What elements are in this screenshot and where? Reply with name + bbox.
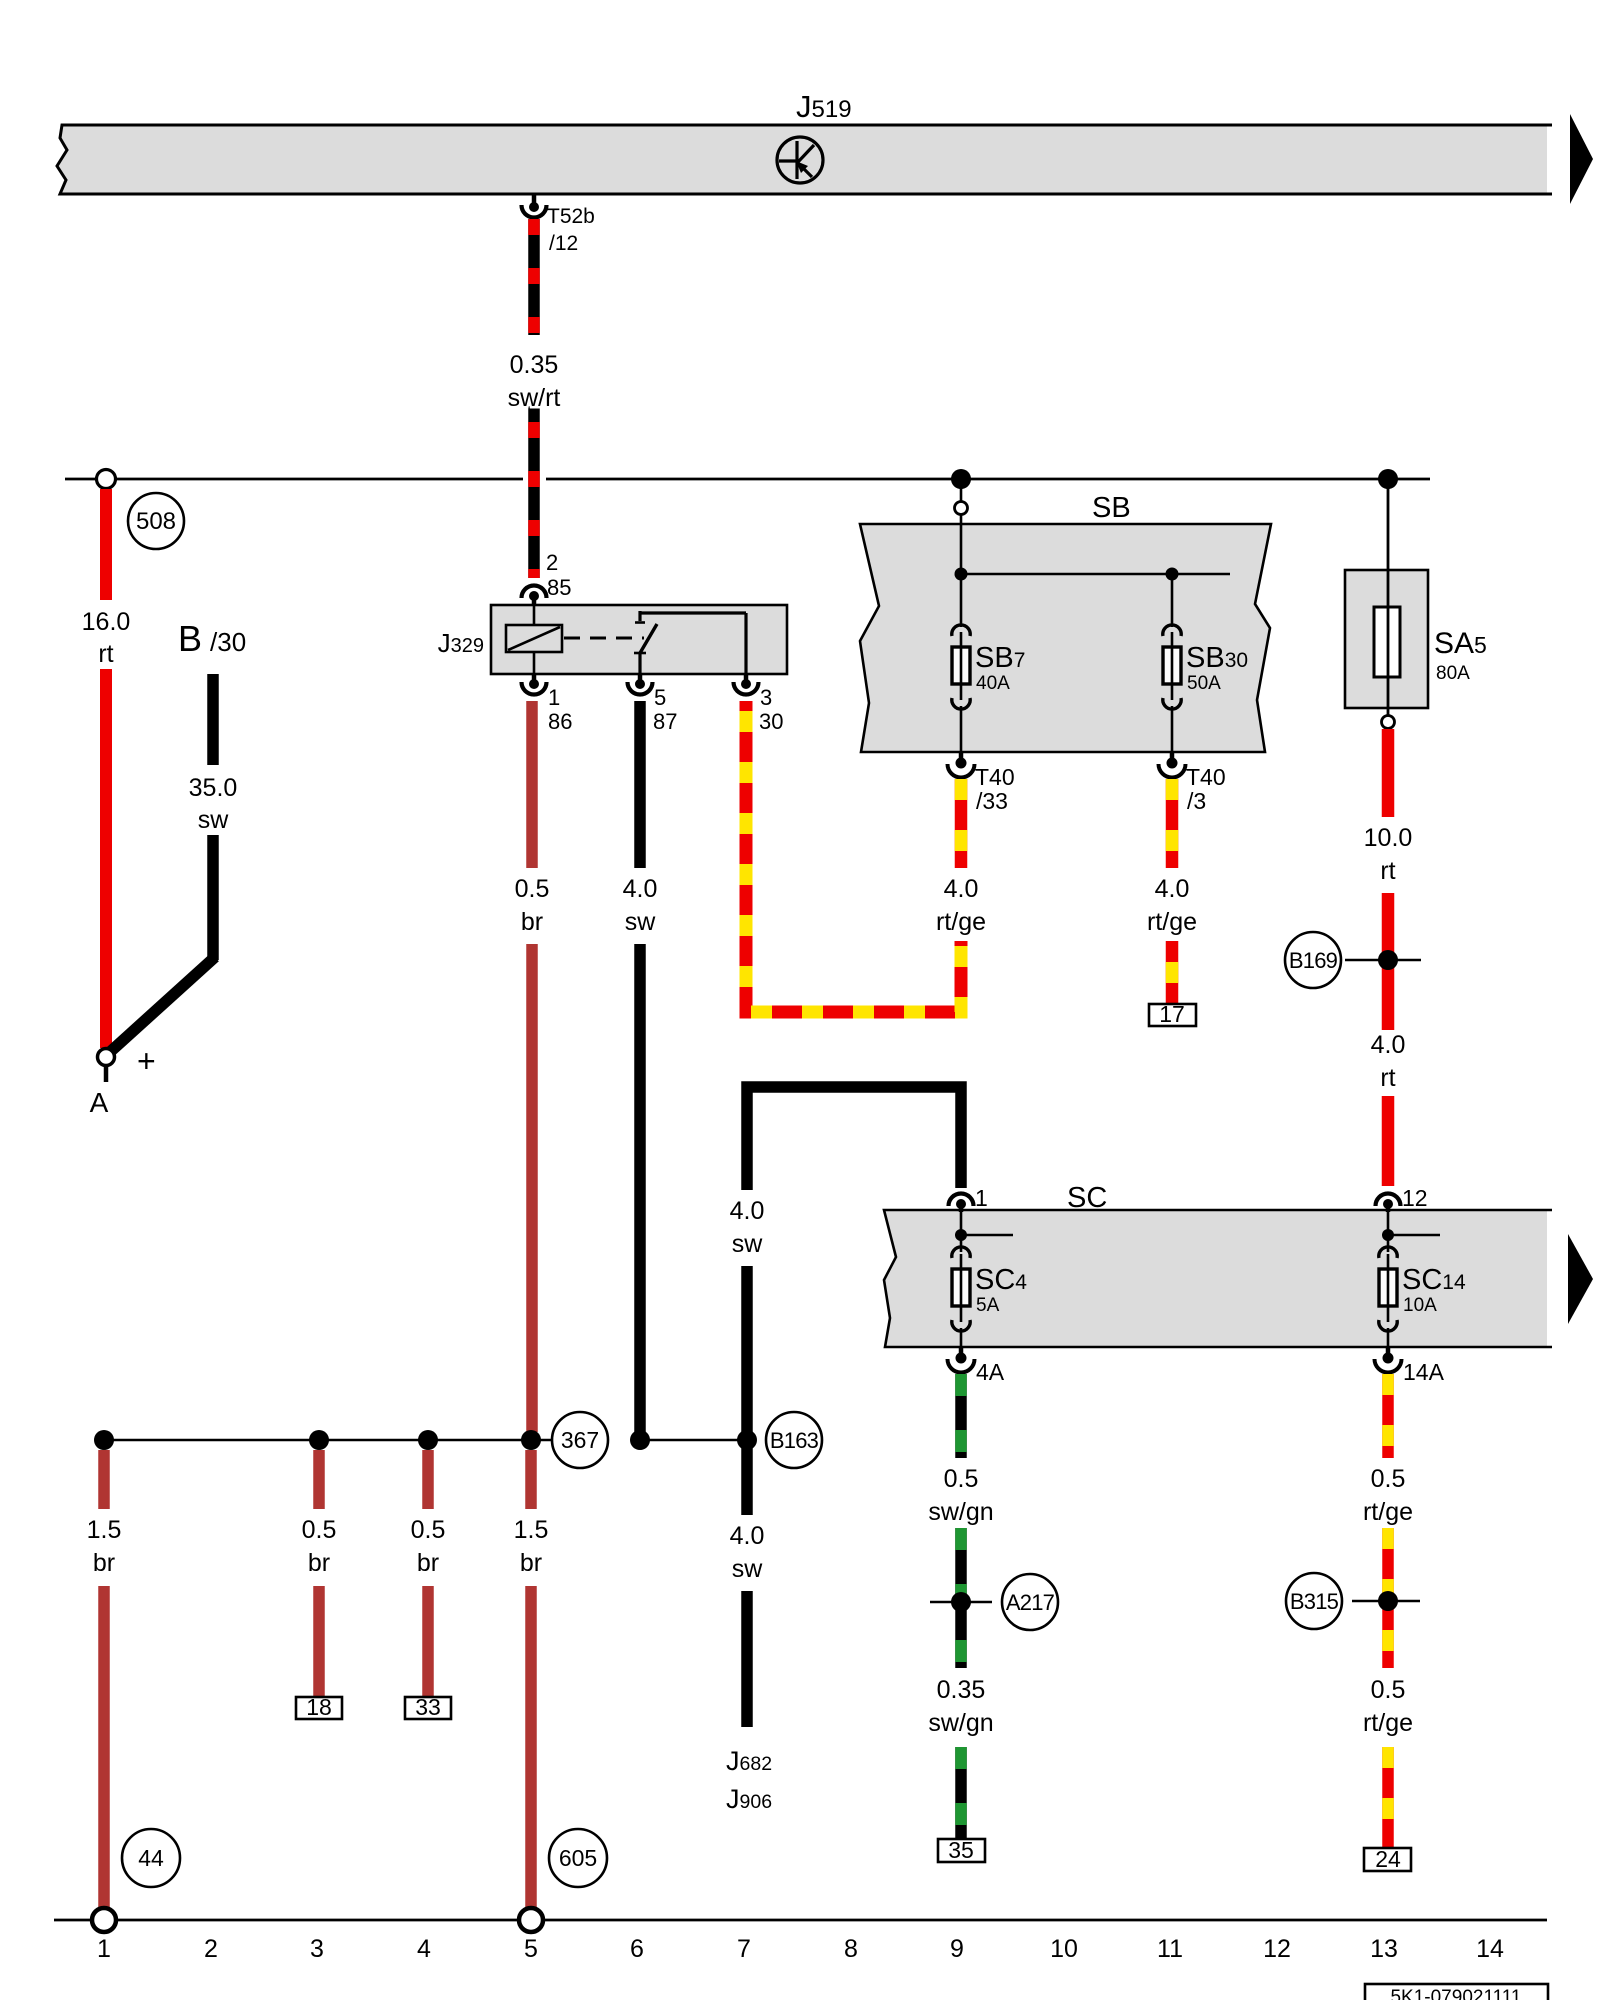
terminal box 17 (1149, 1004, 1196, 1026)
svg-text:87: 87 (653, 709, 677, 734)
svg-text:30: 30 (759, 709, 783, 734)
relay coil (533, 599, 536, 625)
svg-text:605: 605 (559, 1845, 597, 1871)
terminal box 35 (938, 1839, 985, 1862)
svg-text:/12: /12 (549, 232, 578, 255)
fuse SB30 50A (1163, 625, 1181, 752)
svg-text:10: 10 (1050, 1935, 1078, 1963)
wire 4.0 rt to SC pin 12 (1382, 1096, 1395, 1186)
fuse SC4 5A (952, 1247, 970, 1347)
junction dot col4 (418, 1430, 438, 1450)
fuse SC14 10A (1379, 1247, 1397, 1347)
terminal box 24 (1364, 1848, 1411, 1871)
control unit J519 bus bar (57, 125, 1547, 194)
svg-text:11: 11 (1157, 1935, 1183, 1963)
svg-text:80A: 80A (1436, 663, 1470, 684)
svg-text:35.0: 35.0 (189, 774, 238, 802)
wire 16.0 rt (bus to battery A) (100, 489, 112, 600)
svg-text:0.5: 0.5 (515, 875, 550, 903)
arrow continuation right of SC (1568, 1234, 1593, 1324)
wire 4.0 rt/ge L-shape (relay 30 to SB7 output) (746, 701, 961, 1012)
terminal 15 symbol inside J519 (777, 137, 823, 183)
wire 0.35 sw/rt (J519 to relay 85) (528, 219, 540, 578)
open terminal above SB (955, 502, 968, 515)
connector T52b/12 at J519 (522, 194, 595, 255)
wire 0.5 rt/ge to terminal 24 (1382, 1747, 1394, 1848)
svg-text:0.5: 0.5 (1371, 1465, 1406, 1493)
relay switch contact (638, 611, 641, 621)
relay J329 box (491, 605, 787, 674)
ground terminal col5 (519, 1908, 543, 1932)
svg-text:5: 5 (524, 1935, 538, 1963)
svg-text:5K1-079021111: 5K1-079021111 (1390, 1987, 1521, 2000)
junction dot col1 (94, 1430, 114, 1450)
svg-text:12: 12 (1263, 1935, 1291, 1963)
svg-text:40A: 40A (976, 673, 1010, 694)
svg-text:J329: J329 (438, 628, 484, 658)
svg-text:sw: sw (732, 1230, 764, 1258)
svg-text:18: 18 (306, 1694, 332, 1720)
connector 14A below SC (1375, 1347, 1445, 1385)
svg-text:367: 367 (561, 1427, 599, 1453)
svg-text:4.0: 4.0 (944, 875, 979, 903)
svg-text:2: 2 (546, 550, 558, 575)
ground terminal col1 (92, 1908, 116, 1932)
svg-text:rt/ge: rt/ge (1363, 1498, 1413, 1526)
svg-text:rt/ge: rt/ge (1363, 1709, 1413, 1737)
svg-text:13: 13 (1370, 1935, 1398, 1963)
bottom reference line (54, 1919, 1547, 1922)
terminal box 18 (296, 1697, 342, 1719)
svg-text:sw: sw (625, 908, 657, 936)
main positive bus wire (65, 478, 523, 481)
relay pin 5/87 connector (628, 674, 678, 734)
connector 4A below SC (948, 1347, 1005, 1385)
junction dot col5 (521, 1430, 541, 1450)
svg-text:0.35: 0.35 (510, 351, 559, 379)
svg-text:8: 8 (844, 1935, 858, 1963)
relay pin 2/85 connector (522, 550, 572, 605)
svg-text:SB: SB (1092, 492, 1131, 524)
svg-text:6: 6 (630, 1935, 644, 1963)
relay pin 3/30 connector (734, 674, 784, 734)
svg-text:86: 86 (548, 709, 572, 734)
svg-text:T40: T40 (975, 764, 1015, 790)
fuse SA5 80A (1345, 570, 1428, 708)
svg-text:3: 3 (310, 1935, 324, 1963)
svg-text:br: br (93, 1549, 115, 1577)
svg-text:1.5: 1.5 (514, 1516, 549, 1544)
relay pin 1/86 connector (522, 674, 573, 734)
junction dot col3 (309, 1430, 329, 1450)
terminal box 33 (405, 1697, 451, 1719)
node B315 (1352, 1600, 1420, 1603)
svg-text:0.35: 0.35 (937, 1676, 986, 1704)
svg-text:br: br (417, 1549, 439, 1577)
svg-text:12: 12 (1402, 1185, 1428, 1211)
svg-text:4A: 4A (976, 1359, 1005, 1385)
SC14 internal (1387, 1212, 1390, 1252)
wire 4.0 sw L-shape (B163 to SC pin 1) (747, 1087, 961, 1190)
svg-text:A217: A217 (1006, 1590, 1055, 1615)
svg-text:1.5: 1.5 (87, 1516, 122, 1544)
svg-text:sw/gn: sw/gn (928, 1709, 993, 1737)
svg-text:rt/ge: rt/ge (1147, 908, 1197, 936)
wire 10.0 rt (1382, 729, 1395, 817)
node B163 (737, 1430, 757, 1450)
svg-text:J906: J906 (726, 1784, 772, 1814)
svg-text:B169: B169 (1289, 948, 1338, 973)
svg-text:17: 17 (1159, 1001, 1185, 1027)
svg-text:A: A (90, 1087, 109, 1118)
ground symbol label 605 (549, 1829, 607, 1887)
wire 0.5 br (col4) (422, 1450, 434, 1509)
svg-text:sw: sw (198, 806, 230, 834)
battery terminal A (98, 1049, 115, 1066)
node label 367 (552, 1412, 608, 1468)
svg-text:B163: B163 (770, 1428, 819, 1453)
SC4 internal (960, 1212, 963, 1252)
ground symbol label 44 (122, 1829, 180, 1887)
svg-text:10.0: 10.0 (1364, 824, 1413, 852)
svg-text:508: 508 (136, 508, 176, 535)
svg-text:+: + (137, 1043, 156, 1079)
svg-text:/33: /33 (976, 788, 1008, 814)
svg-text:85: 85 (547, 575, 571, 600)
svg-text:br: br (521, 908, 543, 936)
svg-text:0.5: 0.5 (944, 1465, 979, 1493)
svg-text:4.0: 4.0 (623, 875, 658, 903)
svg-text:sw/gn: sw/gn (928, 1498, 993, 1526)
junction on bus at SB (951, 469, 971, 489)
wire 1.5 br (col1) (98, 1450, 110, 1509)
svg-text:rt: rt (1380, 1064, 1395, 1092)
svg-text:T52b: T52b (547, 205, 595, 228)
node label 508 (128, 493, 184, 549)
svg-text:33: 33 (415, 1694, 441, 1720)
connector T40/33 at SB (948, 752, 1015, 814)
svg-text:5: 5 (654, 685, 666, 710)
svg-text:SC: SC (1067, 1182, 1107, 1214)
svg-text:rt: rt (98, 640, 113, 668)
wire 1.5 br (col5) (525, 1450, 537, 1509)
svg-text:7: 7 (737, 1935, 751, 1963)
wire 4.0 sw (label gap to B163) (741, 1266, 753, 1432)
junction on bus at SA5 (1378, 469, 1398, 489)
svg-text:1: 1 (975, 1185, 988, 1211)
fuse box SC (884, 1210, 1547, 1347)
svg-text:B315: B315 (1290, 1589, 1339, 1614)
svg-text:44: 44 (138, 1845, 164, 1871)
wire 0.5 rt/ge (1382, 1374, 1394, 1458)
open terminal below SA5 (1382, 716, 1395, 729)
fuse box SB (860, 524, 1271, 752)
wire 0.5 br (relay 86 to ground node) (526, 701, 538, 868)
junction dot col6 (wire 87 end) (630, 1430, 650, 1450)
connector pin 1 at SC (949, 1185, 988, 1212)
wire 0.5 br (col3) (313, 1450, 325, 1509)
svg-text:9: 9 (950, 1935, 964, 1963)
svg-text:4.0: 4.0 (1371, 1031, 1406, 1059)
wire 4.0 rt (1382, 893, 1395, 1030)
svg-text:14A: 14A (1403, 1359, 1445, 1385)
svg-text:sw/rt: sw/rt (508, 384, 561, 412)
grid numbers (97, 1935, 1504, 1963)
svg-text:J682: J682 (726, 1746, 772, 1776)
svg-text:br: br (520, 1549, 542, 1577)
svg-text:0.5: 0.5 (1371, 1676, 1406, 1704)
wire 35.0 sw (B to battery A) (207, 674, 219, 765)
SB internal feed (960, 514, 963, 574)
svg-text:0.5: 0.5 (302, 1516, 337, 1544)
svg-text:/3: /3 (1187, 788, 1206, 814)
svg-text:B/30: B/30 (178, 618, 246, 659)
connector T40/3 at SB (1159, 752, 1226, 814)
ground distribution wire (104, 1439, 570, 1442)
svg-text:J519: J519 (796, 89, 852, 124)
svg-text:sw: sw (732, 1555, 764, 1583)
node A217 (930, 1601, 992, 1604)
svg-text:2: 2 (204, 1935, 218, 1963)
svg-text:4.0: 4.0 (730, 1522, 765, 1550)
svg-text:10A: 10A (1403, 1295, 1437, 1316)
wire 0.35 sw/gn to terminal 35 (955, 1747, 967, 1839)
fuse SB7 40A (952, 625, 970, 752)
wire 4.0 rt/ge (SB7 down) (955, 779, 968, 868)
svg-text:5A: 5A (976, 1295, 1000, 1316)
svg-text:35: 35 (948, 1837, 974, 1863)
svg-text:4: 4 (417, 1935, 431, 1963)
svg-text:T40: T40 (1186, 764, 1226, 790)
svg-text:rt/ge: rt/ge (936, 908, 986, 936)
svg-text:3: 3 (760, 685, 772, 710)
wire 4.0 sw below B163 (741, 1448, 753, 1515)
svg-text:br: br (308, 1549, 330, 1577)
wire 4.0 rt/ge (SB30 down) (1166, 779, 1179, 1004)
svg-text:24: 24 (1375, 1846, 1401, 1872)
coil to switch dashed link (564, 637, 644, 640)
node B169 (1345, 959, 1421, 962)
svg-text:1: 1 (548, 685, 560, 710)
svg-text:4.0: 4.0 (1155, 875, 1190, 903)
svg-text:50A: 50A (1187, 673, 1221, 694)
wire 0.5 sw/gn (955, 1374, 967, 1458)
svg-text:0.5: 0.5 (411, 1516, 446, 1544)
arrow continuation right of J519 (1570, 114, 1593, 204)
svg-text:16.0: 16.0 (82, 608, 131, 636)
svg-text:1: 1 (97, 1935, 111, 1963)
diagram part number box (1365, 1984, 1548, 2000)
svg-text:rt: rt (1380, 857, 1395, 885)
svg-text:14: 14 (1476, 1935, 1504, 1963)
wire 4.0 sw (relay 87 down) (634, 701, 646, 868)
svg-text:SA5: SA5 (1434, 627, 1487, 660)
svg-text:4.0: 4.0 (730, 1197, 765, 1225)
node 508 open terminal on bus (97, 470, 116, 489)
connector pin 12 at SC (1376, 1185, 1428, 1212)
